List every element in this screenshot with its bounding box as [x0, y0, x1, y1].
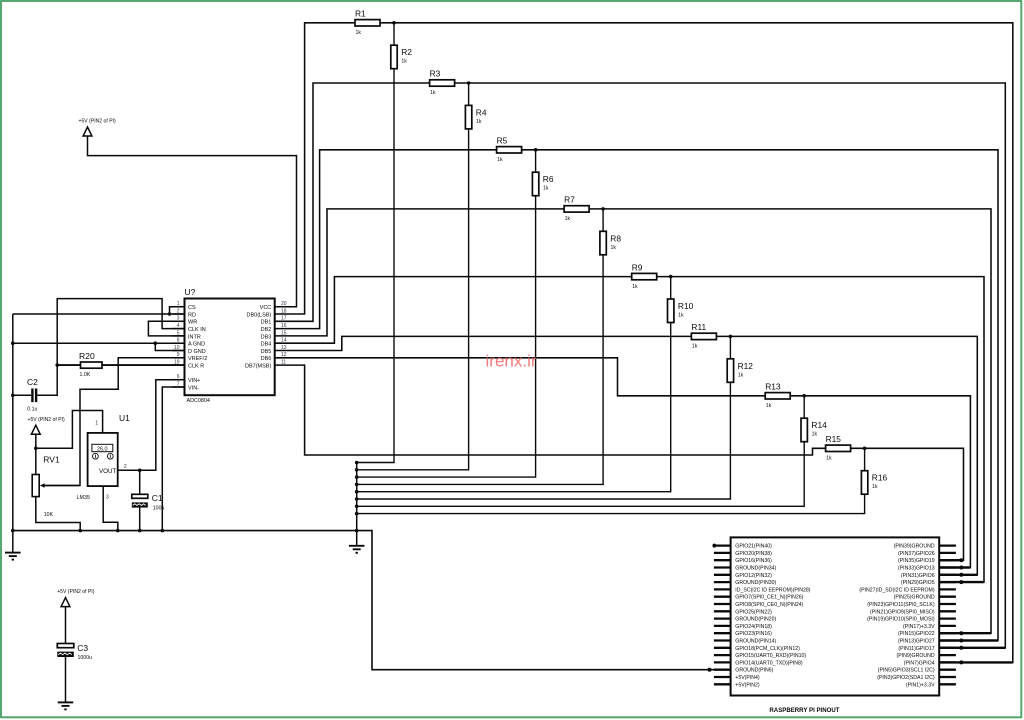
- svg-text:(PIN35)GPIO19: (PIN35)GPIO19: [898, 558, 935, 564]
- svg-text:13: 13: [281, 345, 287, 351]
- svg-text:R14: R14: [811, 420, 827, 430]
- svg-text:R5: R5: [497, 136, 508, 146]
- svg-text:DB5: DB5: [261, 349, 272, 355]
- svg-text:GPIO14(UART0_TXD)(PIN8): GPIO14(UART0_TXD)(PIN8): [735, 660, 803, 666]
- svg-text:VIN+: VIN+: [188, 378, 200, 384]
- svg-text:(PIN37)GPIO26: (PIN37)GPIO26: [898, 551, 935, 557]
- svg-text:1k: 1k: [430, 90, 436, 96]
- svg-text:GPIO8(SPI0_CE0_N)(PIN24): GPIO8(SPI0_CE0_N)(PIN24): [735, 602, 803, 608]
- svg-text:C3: C3: [77, 643, 88, 653]
- svg-text:+5V (PIN2 of PI): +5V (PIN2 of PI): [57, 589, 95, 595]
- svg-text:R13: R13: [765, 382, 781, 392]
- svg-text:12: 12: [281, 352, 287, 358]
- svg-text:9: 9: [177, 352, 180, 358]
- svg-text:1k: 1k: [565, 216, 571, 222]
- svg-text:DB7(MSB): DB7(MSB): [245, 364, 271, 370]
- svg-text:(PIN39)GROUND: (PIN39)GROUND: [894, 544, 935, 550]
- svg-text:(PIN25)GROUND: (PIN25)GROUND: [894, 595, 935, 601]
- svg-text:DB1: DB1: [261, 320, 272, 326]
- svg-text:+5V (PIN2 of PI): +5V (PIN2 of PI): [28, 417, 66, 423]
- svg-text:(PIN7)GPIO4: (PIN7)GPIO4: [904, 660, 935, 666]
- svg-text:20: 20: [281, 301, 287, 307]
- svg-text:1k: 1k: [476, 119, 482, 125]
- svg-text:(PIN1)+3.3V: (PIN1)+3.3V: [906, 682, 935, 688]
- svg-text:7: 7: [177, 381, 180, 387]
- svg-text:(PIN29)GPIO5: (PIN29)GPIO5: [901, 580, 935, 586]
- svg-text:5: 5: [177, 330, 180, 336]
- svg-text:R6: R6: [543, 174, 554, 184]
- svg-text:GPIO12(PIN32): GPIO12(PIN32): [735, 573, 772, 579]
- svg-text:RASPBERRY PI PINOUT: RASPBERRY PI PINOUT: [769, 707, 839, 714]
- svg-text:GPIO18(PCM_CLK)(PIN12): GPIO18(PCM_CLK)(PIN12): [735, 646, 800, 652]
- svg-text:R16: R16: [872, 473, 888, 483]
- svg-text:10K: 10K: [44, 512, 54, 518]
- svg-text:VCC: VCC: [260, 305, 272, 311]
- svg-text:1: 1: [95, 420, 98, 426]
- svg-text:(PIN17)+3.3V: (PIN17)+3.3V: [903, 624, 935, 630]
- svg-text:ID_SC(I2C ID EEPROM)(PIN28): ID_SC(I2C ID EEPROM)(PIN28): [735, 587, 811, 593]
- svg-text:(PIN21)GPIO9(SPI0_MISO): (PIN21)GPIO9(SPI0_MISO): [870, 609, 935, 615]
- svg-text:GPIO23(PIN16): GPIO23(PIN16): [735, 631, 772, 637]
- svg-text:1k: 1k: [872, 484, 878, 490]
- svg-text:(PIN15)GPIO22: (PIN15)GPIO22: [898, 631, 935, 637]
- svg-text:WR: WR: [188, 320, 197, 326]
- svg-text:R9: R9: [632, 262, 643, 272]
- svg-text:15: 15: [281, 330, 287, 336]
- svg-text:R4: R4: [476, 107, 487, 117]
- svg-text:(PIN23)GPIO11(SPI0_SCLK): (PIN23)GPIO11(SPI0_SCLK): [867, 602, 935, 608]
- svg-text:(PIN19)GPIO10(SPI0_MOSI): (PIN19)GPIO10(SPI0_MOSI): [867, 617, 935, 623]
- svg-text:DB3: DB3: [261, 334, 272, 340]
- svg-text:+5V (PIN2 of PI): +5V (PIN2 of PI): [79, 119, 117, 125]
- svg-text:GPIO21(PIN40): GPIO21(PIN40): [735, 544, 772, 550]
- svg-text:(PIN3)GPIO2(SDA1 I2C): (PIN3)GPIO2(SDA1 I2C): [877, 675, 935, 681]
- svg-text:1k: 1k: [678, 313, 684, 319]
- svg-text:GPIO25(PIN22): GPIO25(PIN22): [735, 609, 772, 615]
- svg-text:DB4: DB4: [261, 342, 272, 348]
- svg-text:R20: R20: [79, 351, 95, 361]
- svg-text:GROUND(PIN30): GROUND(PIN30): [735, 580, 776, 586]
- svg-text:(PIN31)GPIO6: (PIN31)GPIO6: [901, 573, 935, 579]
- svg-text:4: 4: [177, 323, 180, 329]
- svg-text:19: 19: [174, 360, 180, 366]
- svg-text:DB2: DB2: [261, 327, 272, 333]
- svg-text:16: 16: [281, 323, 287, 329]
- svg-text:26.0: 26.0: [97, 446, 108, 452]
- svg-text:1k: 1k: [692, 344, 698, 350]
- svg-text:R1: R1: [355, 9, 366, 19]
- svg-text:R3: R3: [430, 69, 441, 79]
- svg-text:(PIN11)GPIO17: (PIN11)GPIO17: [898, 646, 934, 652]
- svg-text:1k: 1k: [812, 432, 818, 438]
- svg-text:GPIO7(SPI0_CE1_N)(PIN26): GPIO7(SPI0_CE1_N)(PIN26): [735, 595, 803, 601]
- svg-text:U?: U?: [185, 287, 196, 297]
- svg-text:LM35: LM35: [77, 495, 91, 501]
- svg-text:CLK R: CLK R: [188, 364, 204, 370]
- svg-text:3: 3: [106, 495, 109, 501]
- svg-text:GROUND(PIN34): GROUND(PIN34): [735, 566, 776, 572]
- svg-text:1k: 1k: [497, 157, 503, 163]
- svg-text:2: 2: [177, 308, 180, 314]
- svg-text:+5V(PIN4): +5V(PIN4): [735, 675, 760, 681]
- svg-text:(PIN33)GPIO13: (PIN33)GPIO13: [898, 566, 935, 572]
- svg-text:18: 18: [281, 308, 287, 314]
- svg-text:A GND: A GND: [188, 342, 205, 348]
- svg-text:1k: 1k: [401, 59, 407, 65]
- svg-text:1k: 1k: [632, 284, 638, 290]
- svg-text:(PIN9)GROUND: (PIN9)GROUND: [897, 653, 935, 659]
- svg-text:CLK IN: CLK IN: [188, 327, 206, 333]
- svg-text:RD: RD: [188, 312, 196, 318]
- svg-text:3: 3: [177, 316, 180, 322]
- svg-text:C2: C2: [27, 377, 38, 387]
- svg-text:DB6: DB6: [261, 356, 272, 362]
- svg-text:RV1: RV1: [43, 454, 60, 464]
- svg-text:GROUND(PIN6): GROUND(PIN6): [735, 668, 773, 674]
- svg-text:GROUND(PIN14): GROUND(PIN14): [735, 639, 776, 645]
- svg-text:D GND: D GND: [188, 349, 206, 355]
- svg-text:1k: 1k: [738, 372, 744, 378]
- svg-text:1k: 1k: [826, 456, 832, 462]
- svg-text:6: 6: [177, 374, 180, 380]
- svg-text:CS: CS: [188, 305, 196, 311]
- svg-text:10: 10: [174, 345, 180, 351]
- svg-text:14: 14: [281, 338, 287, 344]
- svg-text:0.1u: 0.1u: [27, 407, 37, 413]
- svg-text:11: 11: [281, 360, 286, 366]
- svg-text:ADC0804: ADC0804: [187, 398, 210, 404]
- svg-text:VOUT: VOUT: [99, 468, 116, 475]
- svg-text:(PIN13)GPIO27: (PIN13)GPIO27: [898, 639, 935, 645]
- svg-text:17: 17: [281, 316, 287, 322]
- svg-text:1k: 1k: [356, 30, 362, 36]
- svg-text:R2: R2: [401, 47, 412, 57]
- svg-text:+5V(PIN2): +5V(PIN2): [735, 682, 760, 688]
- svg-text:GPIO20(PIN38): GPIO20(PIN38): [735, 551, 772, 557]
- svg-text:C1: C1: [152, 493, 163, 503]
- svg-text:VIN-: VIN-: [188, 385, 199, 391]
- svg-text:8: 8: [177, 338, 180, 344]
- svg-text:GPIO24(PIN18): GPIO24(PIN18): [735, 624, 772, 630]
- svg-text:VREF/2: VREF/2: [188, 356, 207, 362]
- svg-text:1: 1: [177, 301, 180, 307]
- svg-text:1k: 1k: [766, 403, 772, 409]
- svg-text:R10: R10: [678, 301, 694, 311]
- svg-text:irenx.ir: irenx.ir: [486, 351, 537, 370]
- svg-text:GPIO16(PIN36): GPIO16(PIN36): [735, 558, 772, 564]
- svg-text:100u: 100u: [153, 505, 165, 511]
- svg-text:GPIO15(UART0_RXD)(PIN10): GPIO15(UART0_RXD)(PIN10): [735, 653, 806, 659]
- svg-text:U1: U1: [119, 413, 130, 423]
- svg-text:DB0(LSB): DB0(LSB): [247, 312, 272, 318]
- svg-text:1000u: 1000u: [78, 655, 93, 661]
- svg-text:GROUND(PIN20): GROUND(PIN20): [735, 617, 776, 623]
- svg-text:(PIN27)ID_SD(I2C ID EEPROM): (PIN27)ID_SD(I2C ID EEPROM): [859, 587, 935, 593]
- svg-text:1.0K: 1.0K: [80, 372, 91, 378]
- svg-text:R7: R7: [564, 195, 575, 205]
- svg-text:(PIN5)GPIO3(SCL1 I2C): (PIN5)GPIO3(SCL1 I2C): [878, 668, 935, 674]
- svg-text:R8: R8: [610, 233, 621, 243]
- svg-text:R11: R11: [691, 322, 706, 332]
- svg-text:R15: R15: [826, 434, 842, 444]
- svg-text:2: 2: [124, 464, 127, 470]
- svg-text:1k: 1k: [611, 245, 617, 251]
- svg-text:1k: 1k: [543, 186, 549, 192]
- svg-text:R12: R12: [738, 361, 754, 371]
- svg-text:INTR: INTR: [188, 334, 201, 340]
